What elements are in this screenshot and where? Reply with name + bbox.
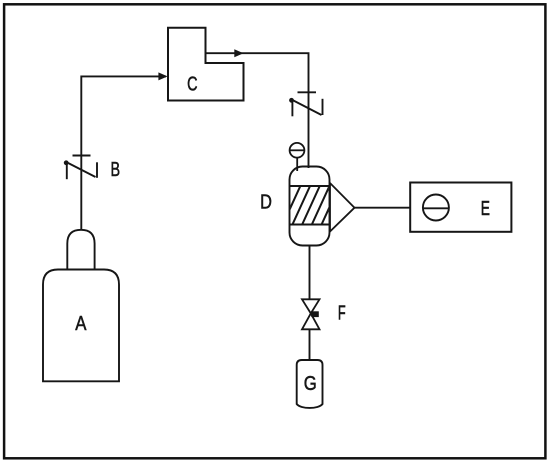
svg-text:B: B [111,159,121,181]
svg-text:F: F [338,302,346,324]
E gauge circle [423,195,449,221]
cylinder A neck dome [67,230,94,270]
svg-text:C: C [187,74,197,96]
svg-text:E: E [481,198,490,220]
vessel D hatching [282,185,349,226]
cylinder G [297,360,323,408]
valve 2 left bar [291,100,293,116]
block C [168,28,244,101]
valve B left bar [66,164,68,180]
wire A up to C [81,76,166,229]
arrowhead on wire from C [234,49,243,57]
pressure gauge circle on D [290,143,305,158]
valve F bottom triangle [302,313,320,329]
svg-text:D: D [260,192,272,214]
wire C to right and down [206,53,309,168]
valve 2 diagonal [291,99,322,115]
valve B diagonal arrowhead [64,160,69,165]
wire D down to F [309,246,311,300]
cone to E [330,183,355,232]
wire cone to E [355,207,411,209]
valve B tick [73,155,91,157]
valve B diagonal [65,162,95,178]
valve 2 diagonal arrowhead [289,98,294,103]
box E [410,183,511,232]
svg-text:A: A [75,313,87,335]
svg-text:G: G [304,373,317,395]
valve F top triangle [302,299,320,313]
gauge cross line [290,149,305,151]
vessel D band top line [290,185,330,187]
valve B right bar [96,162,98,178]
gauge stem [296,158,298,171]
E gauge line [423,207,449,209]
valve F stem blob [311,311,319,317]
arrowhead into C [158,72,167,80]
valve 2 right bar [322,99,324,115]
vessel D band bottom line [290,224,330,226]
vessel D outline [290,167,330,246]
valve 2 tick [298,91,317,93]
cylinder A body [43,270,119,382]
wire F down to G [309,329,311,360]
